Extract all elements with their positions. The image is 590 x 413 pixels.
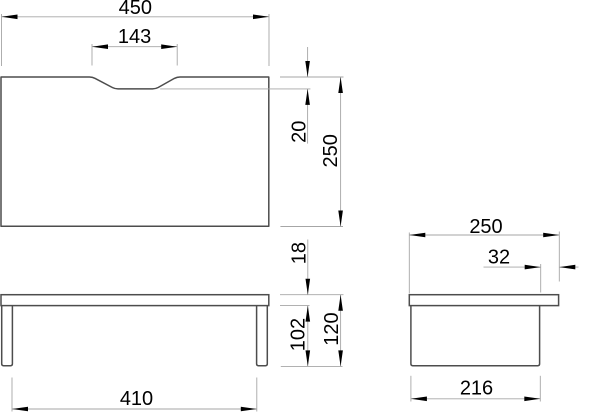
side panel box <box>411 306 540 366</box>
dim 216 (box width) <box>411 376 540 402</box>
dim 450 <box>2 0 270 66</box>
panel with notch <box>1 77 269 226</box>
right leg <box>257 306 268 366</box>
left leg <box>2 306 13 366</box>
dim 250 (front height) <box>280 77 343 227</box>
svg-text:18: 18 <box>289 242 311 264</box>
dim 18 (plank thickness) <box>280 240 344 306</box>
dim 102 (leg height) <box>281 306 343 367</box>
dim 20 (notch depth) <box>160 47 343 144</box>
svg-text:250: 250 <box>320 134 342 167</box>
dim 120 (total height) <box>321 295 343 367</box>
plank <box>1 295 269 306</box>
svg-text:143: 143 <box>118 26 151 48</box>
dim 410 (between legs) <box>12 378 257 412</box>
svg-text:102: 102 <box>288 318 310 351</box>
plank (top, seen from end) <box>409 295 558 306</box>
svg-text:250: 250 <box>469 216 502 238</box>
svg-text:32: 32 <box>488 246 510 268</box>
svg-text:410: 410 <box>120 388 153 410</box>
svg-text:120: 120 <box>321 312 343 345</box>
svg-text:20: 20 <box>289 121 311 143</box>
dim 250 (plank depth) <box>409 216 559 294</box>
svg-text:450: 450 <box>119 0 152 19</box>
svg-text:216: 216 <box>460 377 493 399</box>
dim 143 <box>92 26 177 65</box>
dim 32 (overhang) <box>484 246 579 292</box>
